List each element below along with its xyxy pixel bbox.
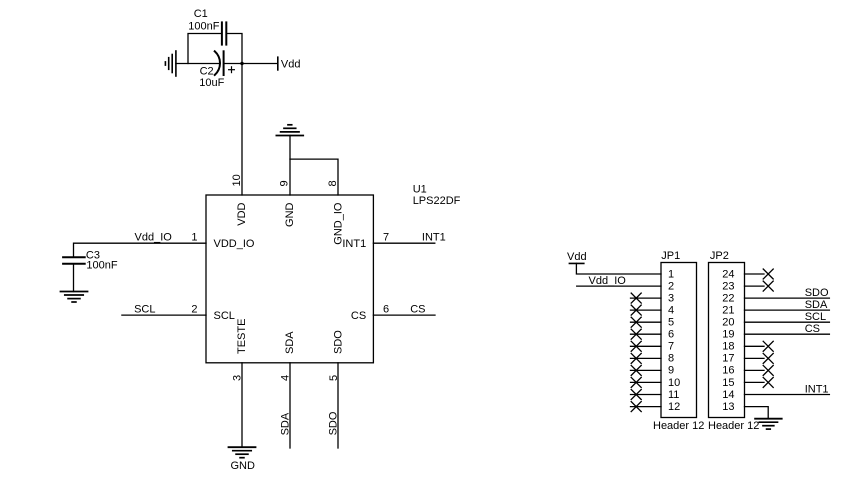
svg-text:CS: CS [351, 310, 366, 322]
svg-text:INT1: INT1 [422, 231, 446, 243]
power Vdd (headers) [567, 251, 587, 264]
svg-text:Header 12: Header 12 [653, 420, 704, 432]
svg-text:SDO: SDO [332, 330, 344, 354]
pin numbers JP2 24-13 [722, 268, 734, 413]
no-connect X JP1 pin 5 [631, 317, 641, 327]
wire pin 4 SDA [289, 363, 291, 448]
svg-text:21: 21 [722, 304, 734, 316]
svg-text:SDA: SDA [279, 412, 291, 435]
wire Vdd_IO to JP1 pin 2 [577, 285, 661, 287]
svg-text:7: 7 [668, 341, 674, 353]
svg-text:2: 2 [191, 304, 197, 316]
ground (JP2 pin 13) [755, 419, 782, 429]
wire JP1 pin 8 [631, 357, 662, 359]
wire pin 7 INT1 [373, 242, 434, 244]
svg-text:2: 2 [668, 280, 674, 292]
wire pin 8 loop [290, 159, 338, 195]
no-connect X JP1 pin 11 [631, 390, 641, 400]
wire JP2 pin 21 SDA [745, 309, 830, 311]
wire pin 1 Vdd_IO [74, 243, 207, 257]
svg-text:JP1: JP1 [661, 250, 680, 262]
svg-text:12: 12 [668, 401, 680, 413]
svg-text:15: 15 [722, 377, 734, 389]
no-connect X JP1 pin 6 [631, 329, 641, 339]
svg-text:9: 9 [668, 365, 674, 377]
wire pin 2 SCL [122, 314, 206, 316]
wire C1 top [188, 34, 242, 64]
pin numbers JP1 1-12 [668, 268, 680, 413]
svg-text:GND: GND [284, 202, 296, 227]
wire ground to C2 [176, 63, 220, 65]
capacitor C2 [199, 51, 234, 89]
svg-text:LPS22DF: LPS22DF [413, 195, 461, 207]
svg-text:11: 11 [668, 389, 679, 401]
wire JP2 pin 13 to ground [745, 407, 769, 419]
svg-text:100nF: 100nF [188, 21, 219, 33]
wire C3 to ground [73, 264, 75, 292]
no-connect X JP1 pin 7 [631, 341, 641, 351]
wire JP1 pin 6 [631, 333, 662, 335]
svg-text:SDA: SDA [805, 299, 828, 311]
svg-text:Vdd_IO: Vdd_IO [135, 231, 173, 243]
svg-text:GND: GND [231, 460, 256, 472]
wire pin 10 [241, 64, 243, 196]
svg-text:CS: CS [410, 304, 425, 316]
svg-text:8: 8 [668, 353, 674, 365]
no-connect X JP2 pin 24 [763, 269, 773, 279]
no-connect X JP1 pin 8 [631, 353, 641, 363]
svg-text:6: 6 [383, 304, 389, 316]
svg-text:SCL: SCL [805, 311, 826, 323]
svg-text:U1: U1 [413, 184, 427, 196]
svg-text:TESTE: TESTE [236, 319, 248, 354]
svg-text:16: 16 [722, 365, 734, 377]
wire JP2 pin 24 [745, 273, 765, 275]
wire JP2 pin 20 SCL [745, 321, 830, 323]
no-connect X JP1 pin 10 [631, 377, 641, 387]
svg-text:13: 13 [722, 401, 734, 413]
no-connect X JP1 pin 3 [631, 293, 641, 303]
svg-text:SDA: SDA [284, 331, 296, 354]
svg-text:INT1: INT1 [805, 383, 829, 395]
svg-text:10: 10 [231, 174, 243, 186]
wire pin 9 to ground [289, 136, 291, 196]
wire JP2 pin 23 [745, 285, 765, 287]
svg-text:18: 18 [722, 341, 734, 353]
svg-text:SCL: SCL [214, 310, 235, 322]
wire JP1 pin 5 [631, 321, 662, 323]
svg-text:20: 20 [722, 317, 734, 329]
no-connect X JP1 pin 9 [631, 365, 641, 375]
svg-text:10uF: 10uF [199, 77, 224, 89]
svg-text:3: 3 [668, 292, 674, 304]
wire Vdd to JP1 pin 1 [576, 263, 661, 274]
ground (signal ground left of C2) [165, 51, 176, 76]
ground GND (below pin 3) [229, 447, 256, 472]
svg-text:17: 17 [722, 353, 734, 365]
wire JP2 pin 19 CS [745, 333, 830, 335]
wire JP2 pin 17 [745, 357, 765, 359]
svg-text:5: 5 [668, 317, 674, 329]
svg-text:9: 9 [279, 180, 291, 186]
svg-text:SDO: SDO [805, 287, 829, 299]
no-connect X JP1 pin 12 [631, 402, 641, 412]
svg-text:Header 12: Header 12 [708, 420, 759, 432]
ground (top, above pin 9) [276, 125, 303, 136]
wire JP1 pin 11 [631, 394, 662, 396]
connector JP2 header body [708, 250, 759, 432]
no-connect X JP2 pin 16 [763, 365, 773, 375]
svg-text:GND_IO: GND_IO [332, 202, 344, 245]
svg-text:CS: CS [805, 323, 820, 335]
wire JP2 pin 18 [745, 345, 765, 347]
node Vdd junction [240, 62, 243, 65]
wire JP2 pin 14 INT1 [745, 394, 830, 396]
wire pin 3 to GND [241, 363, 243, 447]
svg-text:SDO: SDO [327, 411, 339, 435]
svg-text:100nF: 100nF [86, 259, 117, 271]
wire JP2 pin 22 SDO [745, 297, 830, 299]
svg-text:VDD: VDD [236, 202, 248, 225]
capacitor C1 [188, 8, 226, 45]
wire pin 5 SDO [337, 363, 339, 448]
svg-text:6: 6 [668, 329, 674, 341]
no-connect X JP2 pin 15 [763, 377, 773, 387]
wire JP1 pin 7 [631, 345, 662, 347]
wire JP1 pin 3 [631, 297, 662, 299]
svg-text:1: 1 [668, 268, 674, 280]
svg-text:JP2: JP2 [710, 250, 729, 262]
svg-text:7: 7 [383, 231, 389, 243]
no-connect X JP2 pin 23 [763, 281, 773, 291]
svg-text:19: 19 [722, 329, 734, 341]
no-connect X JP2 pin 17 [763, 353, 773, 363]
svg-text:VDD_IO: VDD_IO [214, 238, 255, 250]
wire JP1 pin 4 [631, 309, 662, 311]
svg-text:8: 8 [327, 180, 339, 186]
wire pin 6 CS [373, 314, 435, 316]
svg-text:4: 4 [668, 304, 674, 316]
svg-text:10: 10 [668, 377, 680, 389]
wire JP1 pin 9 [631, 369, 662, 371]
svg-text:C2: C2 [200, 66, 214, 78]
wire JP1 pin 10 [631, 381, 662, 383]
svg-text:Vdd_IO: Vdd_IO [589, 275, 627, 287]
svg-text:SCL: SCL [134, 304, 155, 316]
svg-text:Vdd: Vdd [567, 251, 587, 263]
svg-text:23: 23 [722, 280, 734, 292]
svg-text:24: 24 [722, 268, 734, 280]
IC U1 LPS22DF body [206, 184, 461, 363]
svg-text:14: 14 [722, 389, 734, 401]
svg-text:22: 22 [722, 292, 734, 304]
svg-text:Vdd: Vdd [281, 58, 301, 70]
ground (below C3) [61, 292, 88, 303]
svg-text:C1: C1 [194, 8, 208, 20]
connector JP1 header body [653, 250, 704, 432]
capacitor C3 [63, 250, 118, 272]
no-connect X JP2 pin 18 [763, 341, 773, 351]
wire C2 to Vdd [224, 63, 278, 65]
wire JP2 pin 16 [745, 369, 765, 371]
svg-text:INT1: INT1 [342, 238, 366, 250]
wire JP1 pin 12 [631, 406, 662, 408]
svg-text:1: 1 [191, 231, 197, 243]
wire JP2 pin 15 [745, 381, 765, 383]
no-connect X JP1 pin 4 [631, 305, 641, 315]
power Vdd (top) [278, 57, 301, 70]
